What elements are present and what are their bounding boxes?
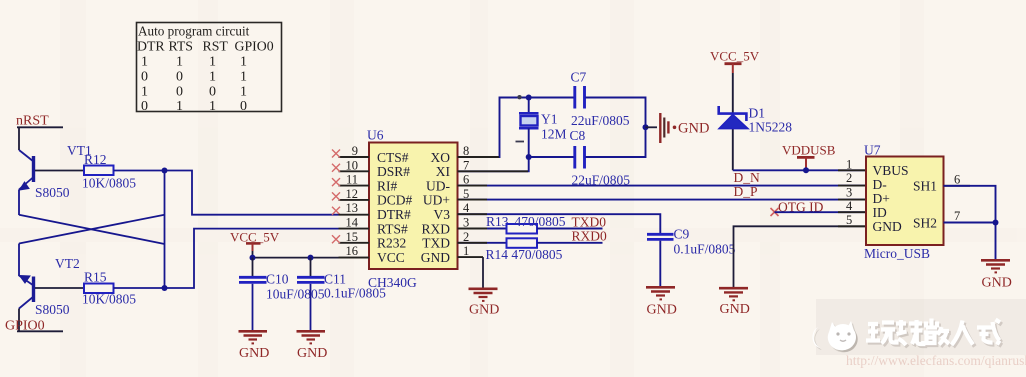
svg-text:XO: XO — [431, 150, 451, 165]
svg-text:14: 14 — [346, 216, 359, 230]
svg-text:R15: R15 — [84, 270, 107, 285]
svg-text:VDDUSB: VDDUSB — [782, 143, 836, 158]
power VDDUSB — [782, 143, 836, 171]
svg-text:DSR#: DSR# — [377, 164, 410, 179]
wire to signal ground — [646, 126, 658, 128]
svg-text:UD-: UD- — [426, 178, 450, 193]
transistor VT2 S8050 — [19, 256, 80, 317]
svg-text:C8: C8 — [570, 128, 586, 143]
svg-text:1: 1 — [463, 244, 469, 258]
wire VT2 base — [35, 287, 84, 289]
svg-text:TXD: TXD — [422, 236, 450, 251]
U6 pin 16 stub — [339, 257, 370, 259]
svg-text:V3: V3 — [434, 207, 451, 222]
pin mark crystal — [517, 95, 521, 99]
svg-text:0: 0 — [141, 99, 148, 114]
svg-text:http://www.elecfans.com/qianru: http://www.elecfans.com/qianrushi — [846, 353, 1026, 368]
svg-text:D+: D+ — [873, 191, 890, 206]
no-ERC cross pin 15 — [332, 235, 340, 243]
svg-text:VCC_5V: VCC_5V — [710, 49, 760, 64]
svg-text:GND: GND — [421, 250, 450, 265]
U7 pin 5 stub — [838, 225, 866, 227]
U6 pin 5 stub — [458, 199, 488, 201]
wire VCC net to U6 pin16 — [253, 257, 370, 259]
svg-text:GND: GND — [647, 303, 677, 318]
U6 pin 12 stub — [339, 199, 370, 201]
svg-text:1: 1 — [240, 55, 247, 70]
ground below U7 pin5 — [719, 288, 750, 317]
svg-text:RXD0: RXD0 — [572, 229, 608, 244]
power VCC_5V right — [710, 49, 760, 74]
svg-text:GND: GND — [297, 346, 327, 361]
svg-text:nRST: nRST — [16, 114, 49, 129]
resistor R14 — [486, 238, 563, 262]
U7 pin 1 stub — [838, 169, 866, 171]
svg-text:13: 13 — [346, 201, 359, 215]
svg-text:4: 4 — [846, 199, 853, 213]
svg-text:RXD: RXD — [421, 221, 450, 236]
U6 pin 15 stub — [339, 242, 370, 244]
capacitor C8 — [570, 128, 631, 188]
no-ERC cross pin 9 — [332, 150, 340, 158]
svg-text:1N5228: 1N5228 — [749, 120, 793, 135]
U7 pin 2 stub — [838, 185, 866, 187]
wire VCC to D1 cathode — [732, 73, 734, 170]
svg-text:1: 1 — [141, 85, 148, 100]
svg-text:1: 1 — [846, 157, 852, 171]
capacitor C10 — [239, 258, 325, 330]
U7 pin 7 stub — [944, 222, 971, 224]
svg-text:10K/0805: 10K/0805 — [82, 176, 136, 191]
U7 pin numbers — [846, 157, 960, 227]
wire cross diagonal A — [19, 215, 165, 244]
crystal Y1 12M — [516, 98, 567, 158]
junction dot VDDUSB — [803, 167, 809, 173]
svg-text:5: 5 — [846, 213, 852, 227]
svg-text:D_N: D_N — [734, 170, 760, 185]
svg-text:VT2: VT2 — [55, 256, 80, 271]
svg-text:10: 10 — [346, 158, 359, 172]
wire R15 to RTS net — [114, 229, 339, 288]
wire C7 to gnd rail — [586, 98, 646, 158]
svg-text:RTS#: RTS# — [377, 221, 408, 236]
wire R13 to TXD0 — [537, 228, 603, 230]
node OTG_ID — [771, 200, 824, 217]
watermark text strokes — [866, 319, 1002, 348]
junction dot C10 — [250, 255, 256, 261]
svg-text:R13: R13 — [486, 214, 509, 229]
junction dot R12 net — [162, 168, 168, 174]
svg-text:7: 7 — [463, 158, 469, 172]
U6 right pin numbers — [463, 144, 470, 258]
svg-text:1: 1 — [240, 85, 247, 100]
U6 pin 2 stub — [458, 242, 488, 244]
U7 pin labels — [873, 163, 938, 234]
wire VT2 emitter up — [18, 244, 20, 277]
wire VT1 base — [35, 170, 84, 172]
svg-text:1: 1 — [209, 55, 216, 70]
node GPIO0 — [5, 319, 63, 334]
no-ERC cross pin 11 — [332, 178, 340, 186]
svg-text:CTS#: CTS# — [377, 150, 409, 165]
U6 pin 6 stub — [458, 185, 488, 187]
resistor R12 — [82, 152, 136, 191]
svg-text:1: 1 — [141, 55, 148, 70]
wire U6 pin4 V3 to C9 — [458, 214, 661, 233]
U7 pin 3 stub — [838, 199, 866, 201]
wire nRST to VT1 collector — [18, 127, 20, 150]
transistor VT1 S8050 — [19, 143, 92, 200]
wire R12 to DTR net — [114, 171, 339, 215]
wire OTG_ID to U7 pin4 — [775, 211, 867, 213]
wire U6 pin5 UD+ to U7 D+ — [458, 199, 867, 201]
wire U6 pin8 XO — [458, 98, 575, 158]
wire U7 SH2 pin7 — [944, 222, 996, 224]
wire VBUS to U7 pin1 — [733, 169, 866, 171]
wire U6 pin3 RXD to R13 — [458, 228, 507, 230]
U6 left pin numbers — [346, 144, 359, 258]
junction dot C11 — [308, 255, 314, 261]
U6 pin 1 GND stub — [458, 256, 484, 258]
ground below SH — [981, 260, 1012, 290]
diode D1 1N5228 — [719, 106, 793, 135]
junction dot crystal bottom — [526, 154, 532, 160]
op-amp U6 CH340G body — [367, 128, 458, 291]
svg-text:SH1: SH1 — [913, 179, 937, 194]
svg-text:470/0805: 470/0805 — [515, 214, 566, 229]
svg-text:GND: GND — [678, 121, 709, 137]
U6 pin 4 stub — [458, 213, 488, 215]
svg-text:3: 3 — [846, 185, 852, 199]
capacitor C11 — [297, 258, 386, 330]
svg-text:C11: C11 — [324, 272, 346, 287]
svg-text:DTR: DTR — [137, 39, 165, 54]
svg-text:S8050: S8050 — [35, 302, 70, 317]
svg-text:S8050: S8050 — [35, 185, 70, 200]
U6 pin 3 stub — [458, 228, 488, 230]
wire R14 to RXD0 — [537, 242, 603, 244]
svg-text:3: 3 — [463, 216, 469, 230]
wire U6 pin2 TXD to R14 — [458, 242, 507, 244]
svg-text:15: 15 — [346, 230, 359, 244]
svg-text:SH2: SH2 — [913, 215, 937, 230]
svg-text:D_P: D_P — [734, 184, 758, 199]
ground below C11 — [297, 331, 328, 361]
svg-text:0: 0 — [176, 85, 183, 100]
svg-text:VCC: VCC — [377, 250, 405, 265]
svg-text:7: 7 — [954, 209, 960, 223]
svg-text:2: 2 — [463, 230, 469, 244]
svg-text:GND: GND — [469, 303, 499, 318]
wire U6 pin7 XI — [458, 157, 529, 171]
svg-text:GND: GND — [720, 302, 750, 317]
svg-text:GND: GND — [873, 219, 902, 234]
svg-text:U6: U6 — [367, 128, 384, 143]
ground below C10 — [239, 331, 270, 361]
svg-text:1: 1 — [209, 99, 216, 114]
U7 pin 6 stub — [944, 185, 971, 187]
svg-text:TXD0: TXD0 — [572, 215, 607, 230]
no-ERC cross pin 12 — [332, 192, 340, 200]
node nRST — [16, 114, 63, 129]
svg-text:DCD#: DCD# — [377, 193, 413, 208]
junction dot gnd stub — [643, 124, 649, 130]
wire U6 pin1 to ground — [482, 257, 484, 287]
wire cross diagonal B — [19, 215, 165, 244]
svg-text:D-: D- — [873, 177, 888, 192]
svg-text:11: 11 — [346, 173, 358, 187]
wire cross vertical — [164, 171, 166, 289]
svg-text:UD+: UD+ — [423, 193, 450, 208]
svg-text:XI: XI — [436, 164, 451, 179]
U6 pin 10 stub — [339, 170, 370, 172]
svg-text:RST: RST — [203, 39, 229, 54]
U6 pin 11 stub — [339, 185, 370, 187]
svg-text:D1: D1 — [749, 106, 766, 121]
resistor R15 — [82, 270, 136, 307]
U6 pin 8 stub — [458, 156, 500, 158]
svg-text:4: 4 — [463, 201, 470, 215]
svg-text:R14 470/0805: R14 470/0805 — [486, 247, 563, 262]
U6 pin 14 stub — [339, 228, 370, 230]
svg-text:6: 6 — [954, 173, 960, 187]
junction dot SH — [993, 220, 999, 226]
svg-text:C10: C10 — [266, 272, 289, 287]
no-ERC cross pin 10 — [332, 164, 340, 172]
watermark logo cat — [812, 321, 857, 352]
svg-text:U7: U7 — [864, 143, 881, 158]
svg-text:10uF/0805: 10uF/0805 — [266, 287, 325, 302]
svg-text:GPIO0: GPIO0 — [235, 39, 274, 54]
svg-text:0: 0 — [176, 70, 183, 85]
svg-text:R232: R232 — [377, 236, 406, 251]
truth table Auto program circuit — [137, 23, 282, 115]
svg-text:C7: C7 — [571, 70, 587, 85]
wire U7 pin5 GND — [734, 226, 867, 287]
watermark backing strip — [816, 299, 1026, 355]
svg-text:RTS: RTS — [169, 39, 193, 54]
signal ground symbol — [660, 113, 709, 143]
svg-text:0: 0 — [141, 70, 148, 85]
svg-text:VBUS: VBUS — [873, 163, 909, 178]
svg-text:0: 0 — [240, 99, 247, 114]
svg-text:0.1uF/0805: 0.1uF/0805 — [674, 242, 736, 257]
svg-text:1: 1 — [209, 70, 216, 85]
U6 pin 13 stub — [339, 214, 370, 216]
ground below U6 — [469, 289, 500, 318]
svg-text:12: 12 — [346, 187, 359, 201]
svg-text:GND: GND — [239, 346, 269, 361]
svg-text:ID: ID — [873, 205, 887, 220]
svg-text:1: 1 — [176, 55, 183, 70]
svg-text:9: 9 — [352, 144, 358, 158]
svg-text:22uF/0805: 22uF/0805 — [571, 113, 630, 128]
svg-text:Auto program circuit: Auto program circuit — [138, 24, 250, 39]
capacitor C9 — [647, 227, 736, 287]
svg-text:0: 0 — [209, 85, 216, 100]
svg-text:10K/0805: 10K/0805 — [82, 292, 136, 307]
U7 pin 4 stub — [838, 211, 866, 213]
no-ERC cross pin 13 — [332, 207, 340, 215]
svg-text:Y1: Y1 — [541, 112, 558, 127]
svg-text:12M: 12M — [541, 127, 567, 142]
wire SH to ground — [995, 223, 997, 260]
U6 pin 9 stub — [339, 156, 370, 158]
wire XI net with C8 — [529, 156, 574, 158]
wire VT1 emitter down — [18, 190, 20, 216]
svg-text:GND: GND — [982, 276, 1012, 291]
svg-text:1: 1 — [176, 99, 183, 114]
svg-text:6: 6 — [463, 173, 469, 187]
capacitor C7 — [571, 70, 630, 129]
svg-text:RI#: RI# — [377, 178, 398, 193]
svg-text:CH340G: CH340G — [368, 275, 417, 290]
U6 pin 7 stub — [458, 170, 529, 172]
svg-text:2: 2 — [846, 171, 852, 185]
U6 right pin labels — [421, 150, 451, 265]
wire U7 SH1 pin6 — [944, 186, 996, 223]
svg-text:8: 8 — [463, 144, 469, 158]
svg-text:1: 1 — [240, 70, 247, 85]
wire U6 pin6 UD- to U7 D- — [458, 185, 867, 187]
junction dot crystal top — [526, 95, 532, 101]
svg-text:16: 16 — [346, 244, 359, 258]
svg-text:Micro_USB: Micro_USB — [864, 246, 930, 261]
connector U7 Micro_USB body — [864, 143, 944, 262]
svg-text:C9: C9 — [674, 227, 690, 242]
power VCC_5V left — [230, 230, 280, 258]
U6 left pin labels — [377, 150, 413, 265]
svg-text:DTR#: DTR# — [377, 207, 411, 222]
ground below C9 — [646, 287, 677, 317]
wire VT2 collector to GPIO0 — [18, 309, 20, 332]
resistor R13 — [486, 214, 566, 234]
junction dot R15 net — [162, 285, 168, 291]
